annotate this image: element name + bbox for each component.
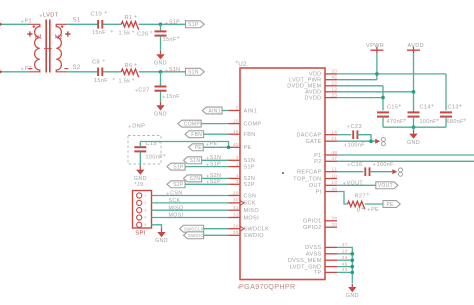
wire S2P to IC — [186, 183, 229, 185]
wire VPWR down — [376, 54, 378, 80]
junction AVDD — [412, 90, 416, 94]
pin AIN1 (5) of U2 — [229, 110, 241, 112]
svg-text:SPI: SPI — [135, 231, 146, 237]
label S2N wire — [206, 175, 209, 178]
svg-text:24: 24 — [342, 255, 348, 260]
svg-text:SWDCLK: SWDCLK — [184, 226, 204, 231]
capacitor C8 — [97, 68, 99, 77]
svg-text:AVSS: AVSS — [306, 252, 322, 258]
svg-text:S1N: S1N — [188, 70, 199, 76]
svg-text:SCK: SCK — [244, 201, 256, 207]
node P2 marker — [0, 70, 2, 74]
svg-text:PGA970QPHPR: PGA970QPHPR — [239, 282, 296, 291]
connector J9 pin 4 — [137, 215, 142, 220]
pin GATE (21) of U2 — [325, 140, 337, 142]
svg-text:PI: PI — [316, 189, 322, 195]
wire TP — [337, 271, 352, 273]
wire MISO — [152, 209, 229, 211]
flag COMP — [178, 120, 201, 127]
wire FBN — [204, 133, 229, 135]
svg-text:100nF: 100nF — [420, 119, 438, 125]
svg-text:GND: GND — [154, 60, 167, 66]
svg-text:47: 47 — [331, 156, 337, 161]
flag S2P — [167, 181, 185, 188]
svg-text:TP: TP — [314, 270, 322, 276]
wire AVSS — [337, 253, 352, 255]
svg-text:COMP: COMP — [244, 121, 262, 127]
flag VOUT — [376, 182, 398, 189]
ground below C14 — [413, 130, 415, 133]
label S1N wire — [206, 157, 209, 160]
flag FBN — [185, 131, 204, 138]
svg-text:GATE: GATE — [306, 139, 322, 145]
wire SCK — [152, 202, 229, 204]
wire P2 to LVDT — [337, 160, 474, 162]
svg-text:S1N: S1N — [169, 67, 180, 73]
svg-text:S1N: S1N — [210, 155, 221, 161]
pin MOSI (32) of U2 — [229, 217, 241, 219]
svg-text:15nF: 15nF — [92, 30, 106, 36]
node P2 input wire — [0, 71, 30, 73]
svg-text:1.5k: 1.5k — [119, 30, 131, 36]
svg-text:TOP_TON: TOP_TON — [293, 176, 321, 182]
junction cap bus — [412, 125, 416, 129]
pin OUT (13) of U2 — [325, 184, 337, 186]
svg-text:C27: C27 — [138, 87, 149, 93]
pin GPIO1 (34) of U2 — [325, 220, 337, 222]
ground below J9 — [161, 229, 163, 232]
label CSN — [167, 193, 170, 196]
svg-text:DACCAP: DACCAP — [296, 133, 321, 139]
svg-text:C8: C8 — [92, 59, 100, 65]
svg-text:OUT: OUT — [309, 183, 322, 189]
svg-text:N1: N1 — [35, 34, 43, 40]
svg-text:20: 20 — [331, 69, 337, 74]
svg-text:MISO: MISO — [244, 208, 260, 214]
pin REFCAP (11) of U2 — [325, 171, 337, 173]
junction VDD-VPWR — [375, 72, 379, 76]
pin DVSS (37) of U2 — [325, 246, 337, 248]
svg-text:S1P: S1P — [244, 164, 255, 170]
ground bottom right — [351, 284, 353, 287]
junction PE at pin — [227, 146, 231, 150]
svg-text:470nF: 470nF — [387, 119, 405, 125]
wire C13 bottom — [445, 117, 447, 128]
wire S1N to IC — [202, 159, 229, 161]
svg-text:C16: C16 — [351, 162, 362, 168]
wire CSN — [152, 195, 229, 197]
svg-text:43: 43 — [342, 267, 348, 272]
wire S1P to IC — [186, 166, 229, 168]
label S2P wire — [206, 181, 209, 184]
svg-text:P2: P2 — [314, 159, 321, 165]
svg-text:LVDT_PWR: LVDT_PWR — [289, 78, 321, 84]
pin P2 (47) of U2 — [325, 160, 337, 162]
op-amp U2 PGA970 body — [240, 68, 325, 280]
svg-text:P1: P1 — [25, 19, 32, 25]
wire PE — [204, 146, 229, 148]
wire PI to R27 — [337, 192, 348, 205]
svg-text:PE: PE — [386, 202, 394, 208]
svg-text:100nF: 100nF — [348, 143, 366, 149]
svg-text:COMP: COMP — [184, 121, 201, 127]
svg-text:12: 12 — [331, 87, 337, 92]
wire C18 top — [139, 142, 141, 148]
svg-text:AIN1: AIN1 — [244, 108, 258, 114]
capacitor C27 — [155, 86, 167, 88]
svg-text:S1P: S1P — [169, 20, 180, 26]
svg-text:REFCAP: REFCAP — [297, 170, 321, 176]
wire net S2 — [67, 71, 98, 73]
flag PE — [189, 144, 204, 151]
flag PE right — [383, 201, 400, 208]
svg-text:SWDCLK: SWDCLK — [244, 227, 270, 233]
pin P1 (48) of U2 — [325, 154, 337, 156]
IC origin mark — [282, 172, 284, 174]
pin S1P (1) of U2 — [229, 166, 241, 168]
svg-text:MISO: MISO — [169, 205, 184, 211]
svg-text:S2N: S2N — [190, 176, 201, 182]
pin SWDIO (35) of U2 — [229, 234, 241, 236]
wire GATE row — [337, 140, 375, 142]
wire junction to C26 — [160, 24, 162, 31]
pin GPIO2 (33) of U2 — [325, 226, 337, 228]
flag SWDIO — [184, 232, 204, 239]
label P1 — [21, 20, 24, 23]
svg-text:S1N: S1N — [190, 158, 201, 164]
transformer T1 LVDT label — [40, 15, 43, 18]
svg-text:42: 42 — [331, 75, 337, 80]
svg-text:C15: C15 — [387, 105, 398, 111]
junction TP — [351, 271, 355, 275]
junction LVDT_GND — [351, 265, 355, 269]
svg-text:5: 5 — [236, 105, 239, 110]
svg-text:C14: C14 — [420, 105, 431, 111]
winding N2 polarity dot — [61, 26, 63, 28]
svg-text:30: 30 — [233, 198, 239, 203]
junction AVSS — [351, 252, 355, 256]
pin MISO (31) of U2 — [229, 209, 241, 211]
svg-text:32: 32 — [233, 212, 239, 217]
svg-text:13: 13 — [331, 180, 337, 185]
label PE net — [206, 143, 209, 146]
wire DVSS — [337, 247, 352, 283]
capacitor C18 (DNP) — [134, 146, 146, 148]
wire REFCAP — [337, 171, 363, 173]
svg-text:VPWR: VPWR — [366, 43, 384, 49]
wire DVSS_MEM — [337, 259, 352, 261]
pin SCK (30) of U2 — [229, 202, 241, 204]
svg-text:LVDT: LVDT — [43, 12, 59, 18]
junction S1N — [159, 70, 163, 74]
pin DVSS_MEM (24) of U2 — [325, 259, 337, 261]
svg-text:GPIO1: GPIO1 — [303, 219, 322, 225]
winding N1 minus — [28, 68, 32, 70]
svg-text:SCK: SCK — [169, 198, 181, 204]
winding N1 polarity dot — [33, 26, 35, 28]
transformer winding N2 — [56, 24, 66, 72]
svg-text:4: 4 — [144, 216, 146, 220]
wire MOSI — [152, 217, 229, 219]
svg-text:PE: PE — [244, 145, 252, 151]
svg-text:VOUT: VOUT — [378, 183, 393, 189]
pin LVDT_GND (46) of U2 — [325, 266, 337, 268]
testpoint on GATE — [375, 139, 380, 144]
svg-text:AVDD: AVDD — [408, 43, 425, 49]
svg-text:4: 4 — [236, 173, 239, 178]
wire R6 to flag S1N — [139, 71, 186, 73]
svg-text:S2: S2 — [73, 65, 81, 71]
wire net S1 — [67, 23, 98, 25]
svg-text:PE: PE — [195, 145, 203, 151]
transformer core arrow — [44, 48, 50, 50]
svg-text:P1: P1 — [314, 153, 321, 159]
svg-text:S1N: S1N — [244, 158, 256, 164]
svg-text:16: 16 — [233, 118, 239, 123]
svg-text:22: 22 — [331, 81, 337, 86]
svg-text:34: 34 — [331, 216, 337, 221]
transformer core — [45, 20, 47, 73]
junction DVDD — [381, 96, 385, 100]
svg-text:FBN: FBN — [191, 132, 202, 138]
svg-text:GND: GND — [346, 293, 359, 299]
label PGA970QPHPR value — [238, 286, 241, 289]
DNP dashed box — [128, 136, 161, 165]
resistor R1 — [121, 22, 138, 30]
wire C10 to R1 — [103, 23, 121, 25]
wire junction to C27 — [160, 72, 162, 86]
pin AVSS (10) of U2 — [325, 253, 337, 255]
label S1P net — [165, 22, 168, 25]
svg-text:CSN: CSN — [244, 193, 257, 199]
label S1N net — [165, 70, 168, 73]
svg-text:S1P: S1P — [173, 164, 184, 170]
connector J9 pin 3 — [137, 208, 142, 213]
svg-text:GND: GND — [154, 112, 167, 118]
wire OUT to VOUT flag — [337, 184, 376, 186]
svg-text:C26: C26 — [137, 31, 148, 37]
wire P1 to LVDT — [337, 154, 474, 156]
wire J9 pin5 to ground — [152, 225, 162, 230]
resistor R27 — [348, 201, 365, 209]
wire AVDD down — [413, 54, 415, 113]
wire DVDD vertical — [382, 86, 384, 111]
pin VDD (20) of U2 — [325, 73, 337, 75]
junction DVSS_MEM — [351, 258, 355, 262]
svg-text:100nF: 100nF — [377, 162, 395, 168]
svg-text:680nF: 680nF — [447, 119, 465, 125]
svg-text:100nF: 100nF — [146, 154, 164, 160]
pin S1N (2) of U2 — [229, 159, 241, 161]
svg-text:2: 2 — [144, 201, 146, 205]
svg-text:14: 14 — [331, 130, 337, 135]
svg-text:0: 0 — [357, 208, 360, 214]
svg-text:10: 10 — [331, 173, 337, 178]
wire R1 to flag S1P — [139, 23, 186, 25]
junction S1P — [159, 23, 163, 27]
svg-text:5: 5 — [144, 223, 146, 227]
ground below C27 — [160, 102, 162, 105]
svg-text:C10: C10 — [91, 11, 102, 17]
flag S2N — [184, 175, 202, 182]
svg-text:11: 11 — [332, 167, 338, 172]
svg-text:44: 44 — [331, 186, 337, 191]
wire C16 to testpoint — [370, 171, 393, 173]
svg-text:35: 35 — [233, 230, 239, 235]
svg-text:DVSS_MEM: DVSS_MEM — [288, 258, 322, 264]
svg-text:31: 31 — [233, 205, 239, 210]
svg-text:21: 21 — [331, 136, 337, 141]
label P2 — [21, 68, 24, 71]
clock mark SCK — [240, 200, 244, 205]
svg-text:2: 2 — [236, 155, 239, 160]
transformer winding N1 — [30, 24, 40, 72]
junction GATE — [369, 139, 373, 143]
wire AVDD row — [337, 91, 414, 93]
label PE net right — [368, 208, 371, 211]
wire VDD to C13 — [445, 74, 447, 111]
svg-text:46: 46 — [342, 261, 348, 266]
pin TOP_TON (10) of U2 — [325, 178, 337, 180]
ground below C18 — [139, 166, 141, 169]
flag S1N — [186, 68, 205, 75]
testpoint on REFCAP — [392, 169, 397, 174]
svg-text:DVDD: DVDD — [305, 95, 322, 101]
svg-text:23: 23 — [331, 92, 337, 97]
clock mark SWDCLK — [240, 226, 244, 231]
svg-text:FBN: FBN — [244, 132, 256, 138]
wire R27 to PE flag — [365, 203, 383, 205]
wire C8 to R6 — [103, 71, 121, 73]
svg-text:37: 37 — [342, 242, 348, 247]
svg-text:GND: GND — [134, 176, 147, 182]
label DNP — [129, 125, 132, 128]
wire DACCAP — [337, 134, 351, 136]
svg-text:15nF: 15nF — [94, 78, 108, 84]
wire SWDIO — [204, 234, 229, 236]
svg-text:3: 3 — [144, 208, 146, 212]
svg-text:U2: U2 — [238, 61, 247, 68]
wire DVDD row — [337, 97, 383, 99]
wire C18 bottom to ground — [139, 152, 141, 167]
connector J9 pin 5 — [137, 222, 142, 227]
wire VDD row — [337, 73, 446, 75]
wire C23 to GATE — [357, 135, 371, 142]
svg-text:S1: S1 — [73, 18, 81, 24]
svg-text:C23: C23 — [351, 124, 362, 130]
flag S1P mid — [167, 163, 185, 170]
svg-text:S1P: S1P — [188, 22, 199, 28]
svg-text:CSN: CSN — [170, 191, 182, 197]
wire C15 bottom — [382, 117, 384, 128]
svg-text:DVSS: DVSS — [305, 245, 321, 251]
svg-text:1.5k: 1.5k — [119, 78, 131, 84]
svg-text:45: 45 — [233, 142, 239, 147]
capacitor C10 — [97, 20, 99, 29]
label VOUT net — [343, 182, 346, 185]
wire S2N to IC — [202, 177, 229, 179]
capacitor C14 — [408, 111, 420, 113]
svg-text:3: 3 — [236, 179, 239, 184]
winding N2 plus — [65, 31, 70, 36]
svg-text:GND: GND — [407, 140, 420, 146]
wire DVDD_MEM row — [337, 85, 383, 87]
capacitor C23 — [352, 130, 354, 139]
pin S2N (4) of U2 — [229, 177, 241, 179]
wire C14 bottom — [413, 117, 415, 128]
svg-text:R6: R6 — [125, 63, 133, 69]
node P1 marker — [0, 23, 2, 27]
wire LVDT_GND — [337, 266, 352, 268]
winding N2 minus — [64, 68, 68, 70]
svg-text:GND: GND — [155, 238, 168, 244]
wire bus to ground — [413, 127, 415, 132]
svg-text:29: 29 — [233, 190, 239, 195]
wire C26 to ground — [160, 36, 162, 51]
svg-text:PE: PE — [371, 207, 379, 213]
pin TP (43) of U2 — [325, 271, 337, 273]
svg-text:C13: C13 — [448, 105, 459, 111]
wire SWDCLK — [204, 228, 229, 230]
flag AIN1 — [202, 107, 222, 114]
svg-text:48: 48 — [331, 150, 337, 155]
ground below C26 — [160, 51, 162, 54]
pin LVDT_PWR (42) of U2 — [325, 79, 337, 81]
pin COMP (16) of U2 — [229, 123, 241, 125]
pin PE (45) of U2 — [229, 146, 241, 148]
svg-text:1: 1 — [144, 194, 146, 198]
pin SWDCLK (36) of U2 — [229, 228, 241, 230]
pin CSN (29) of U2 — [229, 195, 241, 197]
pin S2P (3) of U2 — [229, 183, 241, 185]
winding N1 plus — [27, 31, 32, 36]
wire C18 to PE pin — [140, 142, 228, 148]
svg-text:J9: J9 — [137, 182, 144, 188]
svg-text:R1: R1 — [125, 15, 133, 21]
svg-text:SWDIO: SWDIO — [188, 233, 204, 238]
svg-text:MOSI: MOSI — [244, 215, 260, 221]
svg-text:DNP: DNP — [132, 123, 145, 129]
svg-text:33: 33 — [331, 222, 337, 227]
pin DVDD (23) of U2 — [325, 97, 337, 99]
pin PI (44) of U2 — [325, 191, 337, 193]
svg-text:MOSI: MOSI — [169, 213, 184, 219]
svg-text:AIN1: AIN1 — [208, 108, 221, 114]
connector J9 pin 2 — [137, 200, 142, 205]
pin DACCAP (14) of U2 — [325, 134, 337, 136]
wire AIN1 — [223, 110, 229, 112]
capacitor C13 — [440, 111, 452, 113]
svg-text:N2: N2 — [55, 34, 63, 40]
wire VPWR to LVDT_PWR — [337, 79, 377, 81]
svg-text:15: 15 — [233, 129, 239, 134]
svg-text:36: 36 — [233, 224, 239, 229]
svg-text:R27: R27 — [355, 193, 366, 199]
label S1P wire — [206, 163, 209, 166]
svg-text:1: 1 — [236, 161, 239, 166]
wire C27 to ground — [160, 91, 162, 102]
svg-text:S2P: S2P — [244, 182, 255, 188]
resistor R6 — [121, 69, 138, 77]
flag SWDCLK — [180, 225, 204, 232]
connector J9 pin 1 — [137, 193, 142, 198]
svg-text:SWDIO: SWDIO — [244, 233, 265, 239]
svg-text:15nF: 15nF — [163, 37, 177, 43]
flag S1P — [186, 21, 205, 28]
svg-text:VOUT: VOUT — [347, 181, 364, 187]
capacitor C15 — [377, 111, 389, 113]
wire COMP — [202, 123, 229, 125]
